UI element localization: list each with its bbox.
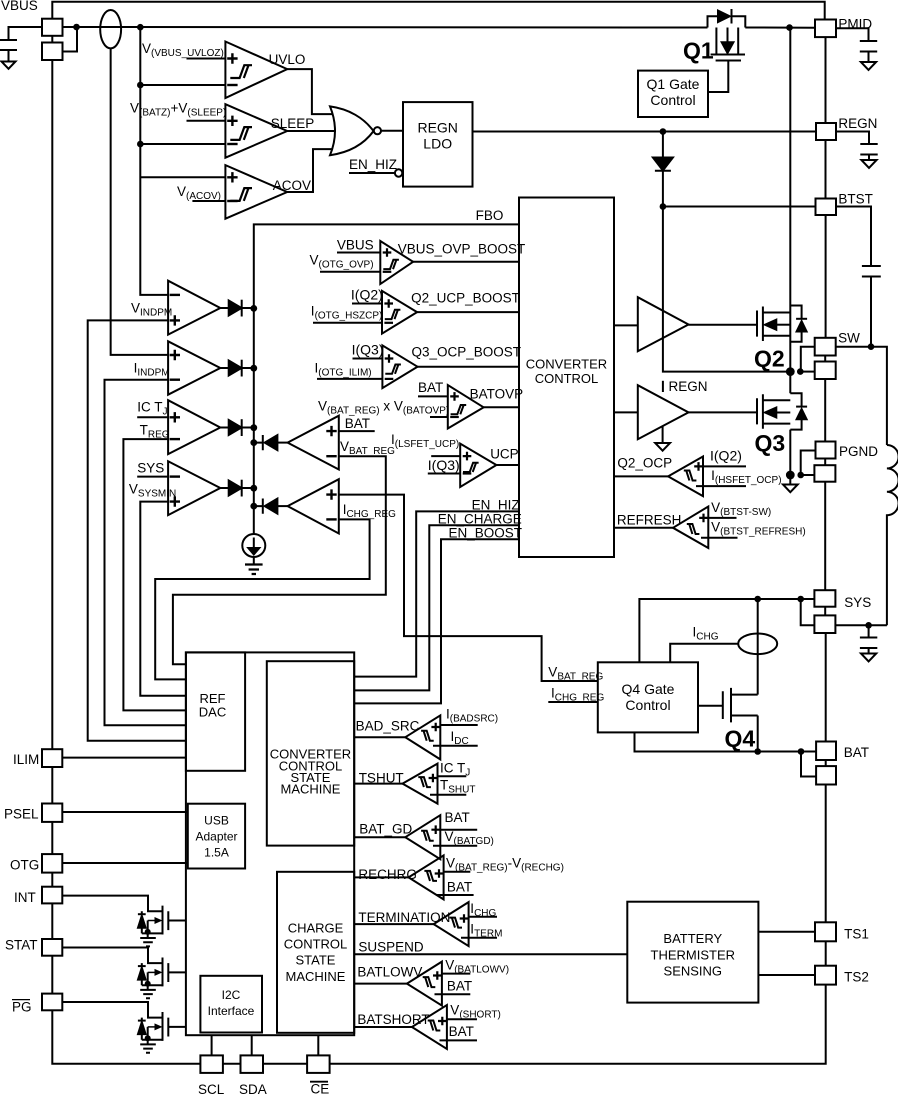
- block BATTERY THERMISTER SENSING: [627, 902, 758, 1003]
- svg-text:Control: Control: [650, 92, 695, 108]
- wire BATLOWV plus stub: [442, 973, 470, 975]
- junction dot PGND branch: [797, 472, 804, 479]
- svg-text:STATE: STATE: [296, 953, 336, 968]
- svg-text:ILIM: ILIM: [13, 752, 39, 767]
- wire SW sq1 left jog: [801, 347, 815, 372]
- wire driver2 output to Q3 gate: [689, 411, 758, 413]
- comparator SYS/VSYSMIN: [168, 461, 220, 515]
- pin SDA: [241, 1055, 264, 1073]
- diode bus to BAT comparator: [254, 435, 263, 450]
- wire PG to FET3 drain: [62, 1002, 162, 1018]
- svg-text:THERMISTER: THERMISTER: [651, 948, 736, 963]
- wire PMID to cap: [836, 28, 869, 41]
- junction dot REGN diode: [660, 128, 667, 135]
- wire ellipse down to IINDPM+: [111, 48, 168, 355]
- wire Q4 box bottom to BAT line: [635, 732, 817, 751]
- wire trunk PGND2-SYS1: [824, 482, 826, 591]
- wire Q2_UCP minus stub: [313, 322, 382, 324]
- wire Q4 source to BAT line: [757, 716, 759, 752]
- pin SW 1: [815, 338, 836, 356]
- wire EN_BOOST route: [354, 539, 519, 703]
- wire VBUS_OVP output: [413, 261, 519, 263]
- wire VBUS sq2 jog to rail: [63, 27, 78, 52]
- junction dot Q4 BAT: [754, 748, 761, 755]
- junction dot SW cap: [868, 343, 875, 350]
- svg-text:BATTERY: BATTERY: [663, 931, 722, 946]
- capacitor REGN: [860, 144, 877, 160]
- wire trunk SYS1-SYS2: [824, 607, 826, 616]
- wire ICTJ plus stub: [137, 416, 168, 418]
- wire SW sq2 left: [800, 371, 814, 373]
- svg-text:TS1: TS1: [844, 927, 869, 942]
- svg-text:SENSING: SENSING: [664, 964, 723, 979]
- wire trunk TS1-TS2: [825, 941, 827, 965]
- wire Q2_OCP plus stub: [703, 465, 746, 467]
- wire UCP minus stub: [428, 473, 460, 475]
- wire SLEEP output to NOR: [287, 130, 336, 132]
- wire STAT to FET2 drain: [62, 948, 162, 964]
- svg-text:PGND: PGND: [839, 444, 878, 459]
- svg-text:BATOVP: BATOVP: [470, 387, 524, 402]
- wire BATSHORT minus stub: [440, 1039, 478, 1041]
- svg-text:Q3: Q3: [755, 430, 786, 456]
- svg-text:REGN: REGN: [669, 379, 708, 394]
- wire PGND sq2 left: [801, 474, 815, 476]
- comparator ACOV: [225, 165, 287, 219]
- buffer driver Q3 gate: [638, 385, 689, 439]
- svg-text:EN_HIZ: EN_HIZ: [349, 157, 397, 172]
- current sense ellipse ICHG: [757, 599, 759, 654]
- block CONVERTER CONTROL: [519, 198, 614, 558]
- comparator VINDPM: [168, 281, 220, 335]
- svg-text:Q4 Gate: Q4 Gate: [622, 681, 675, 697]
- svg-text:STAT: STAT: [5, 938, 38, 953]
- wire ACOV minus stub: [192, 200, 225, 202]
- wire top rail VBUS to PMID: [52, 2, 824, 20]
- junction dot SYS ICHG branch: [754, 596, 761, 603]
- wire PSEL to USB box: [62, 811, 188, 813]
- junction dot bus VINDPM: [250, 305, 257, 312]
- comparator BAT_GD: [405, 815, 440, 859]
- pin BAT 1: [816, 742, 836, 761]
- pin ILIM: [42, 749, 62, 767]
- wire sense vertical x140: [140, 27, 168, 295]
- comparator SLEEP: [225, 104, 287, 158]
- junction dot rail-sq2: [73, 24, 80, 31]
- wire TSHUT output: [354, 783, 402, 785]
- capacitor SYS: [860, 625, 877, 653]
- wire RECHRG output: [354, 876, 408, 878]
- svg-text:Q1: Q1: [683, 38, 714, 64]
- pin STAT: [42, 939, 62, 956]
- svg-text:VBUS: VBUS: [1, 0, 38, 13]
- transistor Q1: [716, 28, 738, 54]
- wire UCP plus stub: [431, 455, 460, 457]
- svg-text:BAT: BAT: [449, 1024, 474, 1039]
- svg-text:Q3_OCP_BOOST: Q3_OCP_BOOST: [412, 345, 522, 360]
- svg-text:Q4: Q4: [725, 726, 756, 752]
- label REGN driver2: [662, 381, 664, 392]
- wire REFRESH minus stub: [701, 537, 738, 539]
- block I2C Interface: [200, 976, 262, 1033]
- wire BAT_GD plus stub: [440, 829, 477, 831]
- wire bottom rail: [52, 985, 825, 1064]
- ground chevron driver2: [662, 426, 664, 443]
- svg-text:SDA: SDA: [239, 1082, 267, 1094]
- wire ILIM to REF DAC: [62, 757, 186, 759]
- wire REGN line: [473, 131, 816, 133]
- comparator TERMINATION: [434, 902, 469, 946]
- wire Q3_OCP output: [418, 366, 520, 368]
- svg-text:OTG: OTG: [10, 858, 39, 873]
- junction dot bus ICTJ: [250, 424, 257, 431]
- block USB Adapter: [188, 804, 245, 869]
- svg-text:USB: USB: [204, 814, 229, 828]
- wire trunk SYS2-BAT1: [825, 633, 827, 742]
- svg-text:1.5A: 1.5A: [204, 846, 229, 860]
- svg-text:Q2: Q2: [754, 346, 785, 372]
- svg-text:REGN: REGN: [417, 120, 457, 136]
- svg-text:LDO: LDO: [423, 136, 452, 152]
- wire SUSPEND to battery sensing: [354, 953, 627, 955]
- wire ICHG sense to Q4 gate control: [670, 644, 738, 663]
- wire SCL to box: [211, 1035, 213, 1056]
- svg-text:REFRESH: REFRESH: [617, 513, 682, 528]
- diode REGN to BTST: [662, 132, 664, 158]
- block REGN LDO: [403, 102, 473, 187]
- pin OTG: [42, 854, 62, 873]
- svg-text:Q1 Gate: Q1 Gate: [647, 76, 700, 92]
- transistor open-drain STAT: [163, 958, 169, 987]
- wire trunk BAT1-BAT2: [825, 760, 827, 766]
- wire TERMINATION minus stub: [461, 937, 497, 939]
- svg-text:I(Q3): I(Q3): [428, 457, 460, 473]
- wire BTST to bootstrap cap: [836, 207, 871, 267]
- svg-text:Adapter: Adapter: [195, 830, 237, 844]
- wire Q2_UCP output: [417, 311, 519, 313]
- ground chevron SYS: [861, 654, 876, 662]
- wire VINDPM plus from REF DAC: [88, 320, 186, 740]
- svg-text:BAT: BAT: [844, 745, 869, 760]
- wire PGND sq1 jog: [801, 451, 816, 476]
- wire trunk SW2-PGND1: [824, 379, 826, 442]
- junction dot rail tap: [137, 24, 144, 31]
- wire UVLO minus input: [140, 84, 225, 86]
- diode VINDPM output: [220, 307, 228, 309]
- block CHARGE CONTROL STATE MACHINE: [277, 872, 354, 1033]
- wire BAT plus stub: [339, 430, 375, 432]
- capacitor VBUS input: [0, 40, 17, 62]
- svg-text:BATSHORT: BATSHORT: [357, 1012, 429, 1027]
- pin BAT 2: [816, 766, 836, 784]
- current sense ellipse VBUS: [100, 10, 121, 48]
- junction dot SW branch: [797, 368, 804, 375]
- junction dot SYS cap: [865, 622, 872, 629]
- comparator Q3_OCP_BOOST: [382, 345, 417, 388]
- wire TERMINATION output: [354, 923, 433, 925]
- svg-text:CONTROL: CONTROL: [284, 937, 348, 952]
- pin PG: [42, 994, 62, 1011]
- svg-text:EN_HIZ: EN_HIZ: [472, 498, 520, 513]
- pin REGN: [816, 123, 836, 140]
- diode IINDPM output: [220, 367, 228, 369]
- wire UCP output: [496, 464, 519, 466]
- junction dot bus BAT tap: [250, 439, 257, 446]
- wire ACOV plus input: [140, 176, 225, 178]
- wire driver1 output to Q2 gate: [689, 324, 758, 326]
- wire VSYSMIN plus to REF DAC: [140, 502, 186, 696]
- block outer state machine container: [186, 652, 354, 1035]
- svg-text:REGN: REGN: [838, 116, 877, 131]
- wire battery box to TS2: [758, 974, 815, 976]
- pin TS2: [815, 966, 836, 985]
- svg-text:BAD_SRC: BAD_SRC: [356, 719, 420, 734]
- wire Q3 source down: [789, 372, 791, 475]
- comparator BATSHORT: [412, 1005, 447, 1049]
- transistor Q4: [698, 705, 723, 707]
- svg-text:BAT: BAT: [447, 880, 472, 895]
- svg-text:EN_CHARGE: EN_CHARGE: [438, 512, 522, 527]
- buffer driver Q2 gate: [638, 297, 689, 351]
- comparator RECHRG: [409, 855, 444, 899]
- comparator IC TJ / TREG: [168, 400, 220, 454]
- wire REFRESH plus stub: [708, 517, 736, 519]
- diode Q2 body: [790, 306, 801, 342]
- transistor open-drain PG: [163, 1012, 169, 1041]
- ground signal current source: [253, 557, 255, 564]
- svg-text:BAT_GD: BAT_GD: [359, 822, 412, 837]
- svg-text:SUSPEND: SUSPEND: [358, 940, 424, 955]
- svg-text:I(Q2): I(Q2): [351, 287, 383, 303]
- wire BATLOWV minus stub: [435, 993, 471, 995]
- svg-text:I2C: I2C: [222, 988, 241, 1002]
- svg-text:Q2_UCP_BOOST: Q2_UCP_BOOST: [411, 291, 520, 306]
- wire Q3_OCP minus stub: [317, 378, 382, 380]
- svg-text:VBUS_OVP_BOOST: VBUS_OVP_BOOST: [398, 242, 526, 257]
- junction dot PMID branch: [786, 24, 793, 31]
- diode ICTJ output: [220, 427, 228, 429]
- block Q1 Gate Control: [638, 71, 708, 117]
- wire Q2_UCP plus stub: [352, 303, 382, 305]
- wire driver2 input: [614, 411, 638, 413]
- wire BATSHORT plus stub: [447, 1018, 477, 1020]
- wire BATLOWV output: [354, 983, 407, 985]
- wire PMID trunk down to Q2: [789, 28, 791, 372]
- wire SYS line to Q4 gate control: [639, 599, 814, 662]
- comparator BAD_SRC: [405, 715, 440, 759]
- junction dot BAT sq2 branch: [798, 748, 805, 755]
- wire driver1 input: [614, 324, 638, 326]
- pin VBUS square 1: [42, 19, 63, 36]
- comparator TSHUT: [403, 764, 438, 804]
- diode Q3 body: [790, 393, 801, 429]
- svg-text:RECHRG: RECHRG: [358, 867, 417, 882]
- wire NOR to REGN LDO: [381, 130, 403, 132]
- comparator BATLOWV: [407, 962, 442, 1006]
- ground chevron PMID: [861, 62, 876, 70]
- wire SLEEP plus stub: [187, 120, 226, 122]
- svg-text:CONTROL: CONTROL: [535, 371, 599, 386]
- svg-text:PG: PG: [12, 1000, 32, 1015]
- pin PMID: [815, 20, 836, 38]
- comparator BATOVP: [448, 385, 484, 429]
- pin INT: [42, 887, 62, 904]
- junction dot bus IINDPM: [250, 365, 257, 372]
- wire BAT_GD output: [354, 836, 405, 838]
- junction dot BTST diode: [660, 203, 667, 210]
- wire BATOVP output: [484, 406, 519, 408]
- wire REFRESH output: [614, 527, 673, 529]
- svg-text:Interface: Interface: [208, 1004, 255, 1018]
- wire EN_HIZ to bubble: [349, 172, 395, 174]
- wire VBUS main rail: [63, 26, 816, 29]
- comparator ICHG current loop: [288, 479, 339, 533]
- diode bus to ICHG comparator: [254, 499, 263, 514]
- wire I_CHG_REG stub: [548, 701, 598, 703]
- comparator Q2_UCP_BOOST: [382, 291, 417, 334]
- wire BAT minus route B to REF DAC: [173, 456, 386, 664]
- junction dot SW main: [786, 367, 795, 376]
- wire Q2_OCP output: [614, 475, 668, 477]
- wire SDA to box: [251, 1035, 253, 1056]
- svg-text:VBUS: VBUS: [337, 238, 374, 253]
- diode Q1 body: [708, 16, 746, 27]
- ground signal FET2: [140, 985, 156, 998]
- wire left trunk VBUS to pins: [51, 36, 53, 994]
- svg-text:BATLOWV: BATLOWV: [357, 965, 422, 980]
- pin SYS 1: [814, 590, 835, 607]
- svg-text:Control: Control: [625, 697, 670, 713]
- svg-text:SCL: SCL: [198, 1082, 225, 1094]
- wire BATOVP minus stub: [430, 416, 448, 418]
- svg-text:CONVERTER: CONVERTER: [526, 357, 607, 372]
- transistor Q3: [757, 394, 763, 429]
- comparator UVLO: [225, 42, 287, 99]
- wire trunk SW1-SW2: [824, 356, 826, 362]
- transistor Q2: [757, 307, 763, 342]
- pin PGND 2: [814, 465, 835, 482]
- wire SYS sq2 right to inductor: [835, 624, 887, 626]
- svg-text:TERMINATION: TERMINATION: [358, 910, 450, 925]
- wire INT to FET1 drain: [62, 896, 162, 912]
- wire IINDPM minus to REF DAC: [105, 380, 186, 726]
- wire BAD_SRC output: [354, 736, 405, 738]
- wire TERMINATION plus stub: [469, 916, 497, 918]
- wire trunk BAT2-TS1: [825, 785, 827, 923]
- wire BTST to driver1 and SW: [663, 207, 790, 372]
- svg-text:MACHINE: MACHINE: [281, 782, 341, 797]
- wire trunk REGN-BTST: [825, 140, 827, 199]
- gate NOR 3-input: [330, 106, 374, 155]
- ground chevron PGND: [789, 475, 791, 485]
- pin VBUS square 2: [42, 43, 63, 61]
- wire Q1 gate to gate control: [708, 62, 728, 93]
- inductor L: [887, 445, 898, 625]
- svg-text:BAT: BAT: [418, 380, 443, 395]
- wire BAT sq2 jog: [801, 752, 816, 777]
- wire BAD_SRC minus stub: [433, 745, 478, 747]
- pin PGND 1: [816, 442, 836, 459]
- svg-text:DAC: DAC: [199, 705, 226, 720]
- svg-text:UVLO: UVLO: [269, 52, 306, 67]
- pin SYS 2: [814, 615, 835, 633]
- capacitor bootstrap BTST-SW: [862, 266, 881, 347]
- ground signal FET3: [140, 1040, 156, 1053]
- ground chevron REGN: [861, 160, 876, 168]
- wire VBUS sq1 to input cap: [9, 27, 43, 40]
- wire trunk BTST-SW: [825, 215, 827, 338]
- svg-text:SW: SW: [838, 331, 860, 346]
- wire RECHRG minus stub: [436, 894, 474, 896]
- svg-text:SYS: SYS: [137, 461, 164, 476]
- svg-text:FBO: FBO: [476, 208, 504, 223]
- svg-text:CE: CE: [311, 1082, 330, 1094]
- transistor open-drain INT: [163, 906, 169, 935]
- svg-text:BAT: BAT: [447, 979, 472, 994]
- wire ICHG plus to VBAT_REG net: [339, 495, 598, 681]
- wire ACOV output to NOR: [287, 149, 333, 192]
- svg-text:MACHINE: MACHINE: [286, 969, 346, 984]
- pin TS1: [815, 922, 836, 941]
- wire BAT_GD minus stub: [433, 845, 477, 847]
- wire VBUS_OVP minus stub: [320, 271, 380, 273]
- svg-text:UCP: UCP: [490, 447, 519, 462]
- wire Q2_OCP minus stub: [696, 485, 746, 487]
- svg-text:SYS: SYS: [844, 595, 871, 610]
- wire BAD_SRC plus stub: [440, 724, 477, 726]
- block Q4 Gate Control: [598, 662, 698, 732]
- svg-text:TS2: TS2: [844, 970, 869, 985]
- wire VBUS_OVP plus stub: [337, 252, 380, 254]
- junction dot PGND main: [786, 471, 795, 480]
- wire OTG to USB box: [62, 862, 188, 864]
- wire REGN to cap: [836, 132, 869, 145]
- wire SW right to inductor: [836, 347, 887, 445]
- junction dot SYS sq2 branch: [797, 596, 804, 603]
- svg-text:SLEEP: SLEEP: [271, 116, 315, 131]
- pin CE: [307, 1055, 330, 1073]
- svg-text:PSEL: PSEL: [4, 807, 39, 822]
- junction dot bus SYS: [250, 485, 257, 492]
- wire trunk PMID-REGN: [825, 37, 827, 123]
- junction dot UVLO tap: [137, 82, 144, 89]
- wire UVLO output to NOR: [287, 69, 332, 114]
- svg-text:BAT: BAT: [445, 810, 470, 825]
- bubble NOR output: [374, 127, 381, 134]
- wire RECHRG plus stub: [444, 871, 471, 873]
- diode SYS output: [220, 487, 228, 489]
- wire Q3_OCP plus stub: [353, 358, 383, 360]
- wire ellipse to Q4 drain: [757, 654, 759, 695]
- comparator REFRESH: [673, 507, 708, 549]
- pin PSEL: [42, 804, 62, 822]
- svg-text:I(Q3): I(Q3): [352, 342, 384, 358]
- svg-text:BAT: BAT: [345, 416, 370, 431]
- block REF DAC: [186, 652, 245, 770]
- pin SCL: [200, 1055, 223, 1073]
- junction dot SLEEP tap: [137, 141, 144, 148]
- wire FBO from min bus: [254, 224, 519, 534]
- pin BTST: [816, 199, 837, 216]
- wire SLEEP minus input: [140, 143, 225, 145]
- svg-text:ACOV: ACOV: [273, 178, 311, 193]
- wire trunk PGND1-PGND2: [824, 459, 826, 466]
- wire BATSHORT output: [354, 1026, 412, 1028]
- wire EN_HIZ route: [354, 511, 519, 676]
- wire ICHG minus route A to REF DAC: [155, 519, 369, 679]
- ground chevron VBUS cap: [2, 62, 16, 69]
- comparator IINDPM: [168, 341, 220, 394]
